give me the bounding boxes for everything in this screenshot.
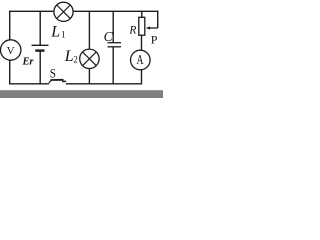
ammeter wire lower: [141, 70, 143, 85]
switch S right contact: [62, 80, 64, 82]
wire bottom-left segment: [9, 83, 49, 85]
switch S blade: [49, 80, 52, 82]
lamp L2 wire upper: [88, 11, 90, 49]
voltmeter U1 circle: [1, 40, 21, 60]
wire rheostat to ammeter: [141, 35, 143, 50]
ammeter U2 circle: [131, 50, 151, 70]
wire top-left segment: [10, 10, 54, 12]
battery long plate: [32, 44, 49, 46]
background: [0, 0, 163, 98]
bottom gray bar: [0, 90, 163, 98]
svg-text:A: A: [137, 53, 145, 68]
lamp L2 cross: [83, 52, 97, 66]
lamp L2 wire lower: [88, 69, 90, 85]
lamp L1 cross: [57, 5, 71, 19]
rheostat slider arrow: [149, 27, 158, 29]
svg-text:C: C: [104, 29, 114, 44]
rheostat R box: [139, 17, 145, 35]
wire bottom-right segment: [66, 83, 142, 85]
rheostat R wire upper: [141, 11, 143, 18]
lamp L1 circle: [54, 2, 73, 21]
svg-text:V: V: [7, 45, 15, 57]
svg-text:L: L: [64, 48, 74, 65]
svg-text:S: S: [50, 65, 56, 80]
svg-text:E: E: [22, 56, 30, 67]
svg-text:1: 1: [61, 30, 66, 40]
capacitor C wire lower: [112, 47, 114, 85]
svg-text:L: L: [50, 23, 60, 40]
wire left edge upper: [9, 11, 11, 40]
battery short thick plate: [35, 49, 44, 51]
capacitor C wire upper: [112, 11, 114, 43]
capacitor C top plate: [108, 42, 122, 44]
svg-text:2: 2: [73, 55, 78, 65]
lamp L2 circle: [80, 49, 99, 68]
svg-text:R: R: [128, 25, 136, 37]
svg-text:P: P: [151, 33, 158, 47]
wire left edge lower: [9, 60, 11, 85]
wire right edge: [157, 11, 159, 28]
battery wire upper: [39, 11, 41, 46]
wire top-right segment: [73, 10, 158, 12]
capacitor C bottom plate: [108, 46, 122, 48]
battery wire lower: [39, 51, 41, 85]
